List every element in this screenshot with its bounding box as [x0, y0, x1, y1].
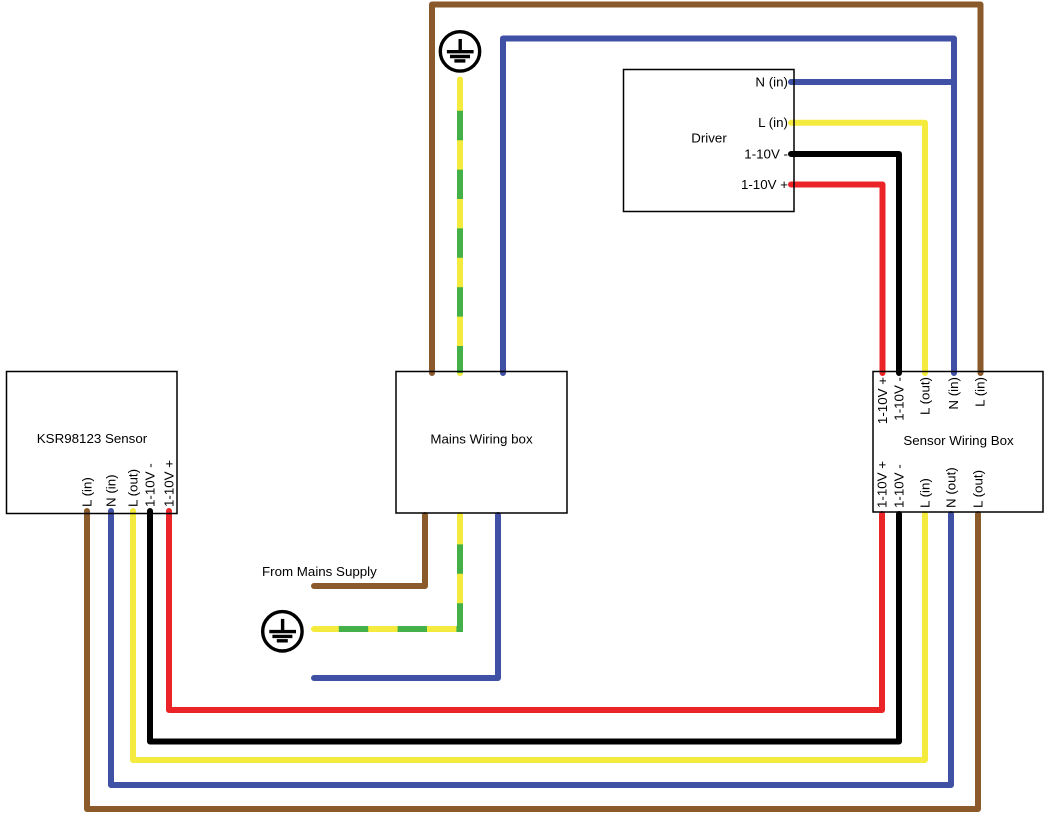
svg-text:N (in): N (in) [946, 377, 961, 410]
svg-text:L (in): L (in) [80, 477, 95, 507]
wire: black Driver 1-10V - to Sensor box top [791, 154, 899, 373]
wire: black KSR 1-10V - to Sensor box bottom 1-10V - [150, 511, 899, 742]
KSR98123 Sensor box border [7, 372, 178, 514]
wire: blue stub Driver N (in) to blue loop [791, 79, 954, 85]
Mains Wiring box border [396, 372, 567, 514]
wire: earth mains supply green stripes [314, 515, 460, 629]
svg-text:1-10V -: 1-10V - [892, 464, 907, 508]
wire: blue from mains supply to Mains box bottom [314, 515, 498, 678]
wire: brown from mains supply to Mains box bottom [314, 515, 425, 586]
Driver box fill [624, 70, 795, 212]
wire: earth mains supply yellow base [314, 515, 460, 629]
svg-text:1-10V +: 1-10V + [875, 377, 890, 424]
ground symbol bottom [263, 612, 302, 651]
svg-text:L (in): L (in) [918, 478, 933, 508]
wire: yellow KSR L (out) to Sensor box bottom L (in) [133, 511, 925, 760]
svg-text:L (in): L (in) [973, 377, 988, 407]
wire: red KSR 1-10V + to Sensor box bottom 1-10V + [169, 511, 882, 710]
svg-text:N (in): N (in) [104, 474, 119, 507]
wire: earth top vertical green stripes [457, 81, 463, 373]
svg-text:L (in): L (in) [758, 115, 788, 130]
Mains Wiring box fill [396, 372, 567, 514]
svg-text:1-10V -: 1-10V - [892, 377, 907, 421]
svg-text:KSR98123 Sensor: KSR98123 Sensor [37, 431, 148, 446]
svg-text:1-10V +: 1-10V + [741, 177, 788, 192]
svg-text:L (out): L (out) [971, 470, 986, 508]
wire: brown mains L loop (Mains box top - around top - Sensor box top L (in)) [432, 5, 981, 374]
wire: earth top vertical yellow base [457, 80, 463, 374]
svg-text:Sensor Wiring Box: Sensor Wiring Box [903, 433, 1014, 448]
Driver box border [624, 70, 795, 212]
svg-text:L (out): L (out) [126, 469, 141, 507]
svg-text:N (out): N (out) [944, 467, 959, 508]
svg-text:Mains Wiring box: Mains Wiring box [430, 432, 533, 447]
ground symbol top [440, 32, 479, 71]
Sensor Wiring Box border [873, 372, 1043, 513]
wire: blue KSR N (in) to Sensor box bottom N (out) [111, 511, 951, 785]
svg-text:Driver: Driver [691, 131, 727, 146]
wire: red Driver 1-10V + to Sensor box top [791, 185, 883, 374]
svg-text:N (in): N (in) [755, 75, 788, 90]
wire: blue N loop (Mains box top - Sensor box top N (in)) [503, 39, 954, 374]
svg-text:1-10V +: 1-10V + [875, 461, 890, 508]
Sensor Wiring Box fill [873, 372, 1043, 513]
wire: yellow Driver L (in) to Sensor box top L (out) [791, 123, 925, 373]
svg-text:1-10V -: 1-10V - [143, 463, 158, 507]
svg-text:L (out): L (out) [918, 377, 933, 415]
wire: brown KSR L (in) to Sensor box bottom L (out) [87, 511, 978, 809]
svg-text:1-10V +: 1-10V + [162, 460, 177, 507]
svg-text:1-10V -: 1-10V - [744, 147, 788, 162]
svg-text:From Mains Supply: From Mains Supply [262, 564, 377, 579]
KSR98123 Sensor box fill [7, 372, 178, 514]
